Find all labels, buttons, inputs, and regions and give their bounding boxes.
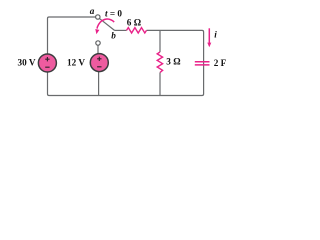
wire 12V branch vertical	[97, 45, 100, 95]
voltage source 30V	[38, 54, 56, 72]
resistor 3 ohm (vertical zigzag)	[157, 52, 162, 73]
wire from 6-ohm resistor left end to switch pivot	[115, 29, 127, 31]
svg-text:a: a	[90, 6, 95, 16]
wire 3-ohm branch vertical top	[159, 30, 161, 52]
wire 3-ohm branch vertical bottom	[159, 73, 161, 96]
resistor 6 ohm (horizontal zigzag)	[127, 28, 147, 33]
current arrow i	[208, 28, 210, 43]
wire switch arm diagonal from pivot b to contact a	[100, 19, 115, 31]
svg-text:i: i	[214, 29, 217, 39]
wire: outer loop left branch top wire	[48, 17, 204, 96]
svg-text:b: b	[111, 31, 116, 41]
svg-text:6 Ω: 6 Ω	[127, 17, 141, 27]
svg-text:12 V: 12 V	[67, 57, 85, 67]
svg-text:3 Ω: 3 Ω	[166, 56, 180, 66]
switch action curved arrow t=0	[97, 19, 114, 29]
switch contact a (open circle)	[96, 15, 100, 19]
wire left vertical below 30V source to bottom-left corner and bottom wire	[48, 30, 204, 95]
voltage source 12V	[90, 54, 108, 72]
capacitor 2F plates	[195, 62, 210, 65]
wire top-left horizontal from corner to switch contact a	[48, 17, 96, 54]
switch contact below (to 12V)	[96, 41, 100, 45]
svg-text:30 V: 30 V	[18, 57, 36, 67]
svg-text:t = 0: t = 0	[105, 8, 122, 18]
svg-text:2 F: 2 F	[214, 58, 227, 68]
